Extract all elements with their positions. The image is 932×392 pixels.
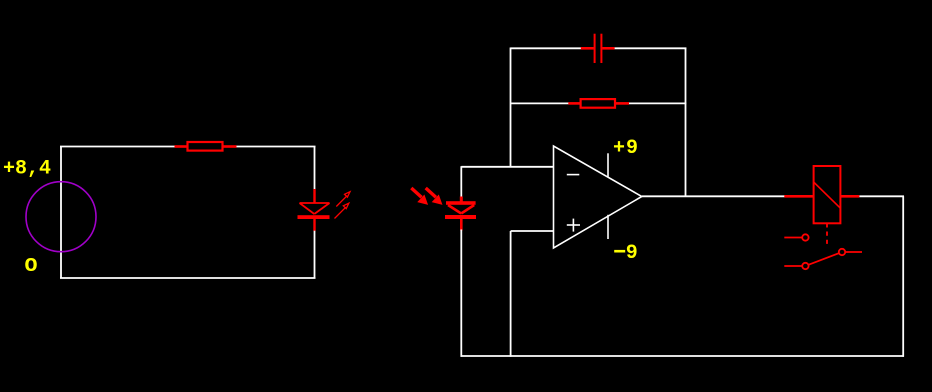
- wire feedback right vertical: [685, 48, 687, 197]
- capacitor C1: [581, 34, 615, 63]
- photodiode D2 incident light arrow right: [426, 188, 442, 204]
- LED D1 emitted light arrow lower: [335, 203, 349, 218]
- wire left loop top edge right segment: [237, 146, 316, 148]
- wire non-inverting input vertical: [510, 231, 512, 357]
- svg-text:+9: +9: [613, 137, 638, 160]
- wire left loop bottom edge: [60, 277, 316, 279]
- wire feedback top (capacitor branch) right segment: [615, 47, 687, 49]
- wire photodiode top (to inverting input): [460, 166, 462, 197]
- wire left loop left edge: [60, 147, 62, 279]
- wire left loop top edge left segment: [60, 146, 175, 148]
- resistor R1: [175, 142, 237, 151]
- LED D1 emitted light arrow upper: [336, 192, 350, 207]
- relay switch lower contact: [784, 263, 808, 269]
- photodiode D2 incident light arrow left: [411, 188, 427, 204]
- resistor R2: [568, 99, 629, 108]
- wire feedback left vertical: [510, 48, 512, 167]
- label -9: [614, 242, 638, 265]
- svg-text:9: 9: [626, 242, 638, 265]
- wire right vertical: [902, 196, 904, 356]
- wire left loop right edge upper segment: [314, 147, 316, 191]
- wire inverting input horizontal: [461, 166, 553, 168]
- wire relay coil to right vertical: [859, 195, 904, 197]
- wire left loop right edge lower segment: [314, 231, 316, 279]
- wire feedback resistor branch left segment: [511, 102, 570, 104]
- wire bottom rail: [461, 355, 905, 357]
- relay RL1 coil: [784, 166, 859, 223]
- svg-text:+8,4: +8,4: [3, 158, 51, 181]
- wire op-amp output: [642, 195, 785, 197]
- wire non-inverting input horizontal: [511, 230, 554, 232]
- relay RL1 actuation link (dashed): [826, 223, 828, 247]
- relay switch common pole: [808, 249, 862, 265]
- voltage source V1: [26, 182, 96, 252]
- svg-text:O: O: [25, 255, 38, 277]
- photodiode D2: [445, 197, 476, 231]
- op-amp U1: [554, 146, 642, 248]
- LED D1: [298, 189, 330, 231]
- wire feedback top (capacitor branch) left segment: [511, 47, 582, 49]
- wire photodiode bottom: [460, 230, 462, 357]
- wire feedback resistor branch right segment: [629, 102, 686, 104]
- relay switch upper contact: [784, 234, 808, 240]
